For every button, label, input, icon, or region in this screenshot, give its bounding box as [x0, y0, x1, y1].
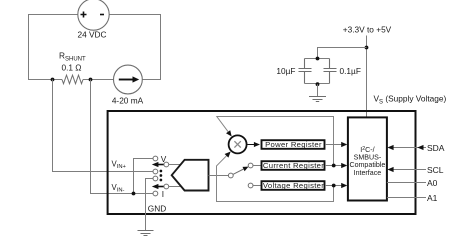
switch terminal V	[153, 156, 158, 161]
wire cap top rail	[305, 58, 330, 60]
node cap bottom	[316, 82, 320, 86]
wire supply vertical	[366, 36, 368, 118]
current register box	[262, 161, 325, 170]
wire current loop to multiplier	[217, 117, 334, 166]
svg-text:Voltage Register: Voltage Register	[263, 181, 324, 190]
pin A0	[387, 182, 426, 184]
voltage register input circle	[248, 183, 253, 188]
switch terminal 3	[153, 176, 158, 181]
voltage source V1 24 VDC	[78, 0, 109, 30]
wire wiper to adc lower	[169, 186, 182, 188]
wire supply to caps	[318, 48, 367, 59]
pin SDA	[393, 147, 426, 149]
capacitor C1 10uF	[299, 59, 312, 84]
svg-text:I: I	[162, 189, 164, 199]
svg-text:Interface: Interface	[354, 169, 382, 177]
pin SCL	[393, 169, 426, 171]
svg-text:Current Register: Current Register	[263, 161, 324, 170]
wire wiper to adc upper	[169, 164, 181, 166]
wire shunt leads	[53, 79, 114, 81]
svg-text:+3.3V to +5V: +3.3V to +5V	[343, 25, 392, 35]
capacitor C2 0.1uF	[324, 59, 337, 84]
current register input circle	[248, 163, 253, 168]
ellipsis dots	[160, 170, 163, 173]
svg-text:SCL: SCL	[427, 165, 444, 175]
wire current register to interface	[325, 165, 342, 167]
voltage register box	[262, 181, 325, 190]
svg-text:4-20 mA: 4-20 mA	[112, 96, 144, 106]
svg-text:0.1 Ω: 0.1 Ω	[61, 63, 81, 73]
node cap top	[316, 57, 320, 61]
node dot left shunt	[51, 78, 55, 82]
switch pole adc out	[228, 173, 233, 178]
pin A1	[387, 197, 426, 199]
svg-text:SMBUS-: SMBUS-	[354, 153, 382, 161]
ground symbol IC	[138, 231, 154, 236]
svg-text:A0: A0	[427, 178, 438, 188]
switch wiper upper	[158, 164, 164, 166]
switch throw diagonal to current	[233, 169, 244, 174]
wire cap bottom rail	[305, 83, 330, 85]
wire adc output	[209, 175, 229, 177]
switch wiper lower	[158, 186, 164, 188]
svg-text:0.1µF: 0.1µF	[340, 66, 361, 76]
node VIN- junction	[132, 192, 136, 196]
power register box	[262, 140, 325, 149]
wire top-left loop	[29, 15, 78, 80]
wire voltage loop to multiplier	[217, 156, 334, 202]
IC box U1	[108, 111, 416, 214]
wire GND from switch	[146, 179, 153, 231]
current source I1 4-20 mA	[114, 65, 143, 94]
interface box I2C/SMBUS	[348, 117, 387, 200]
svg-text:Power Register: Power Register	[265, 140, 322, 149]
wire VIN- drop	[91, 80, 153, 194]
svg-text:24 VDC: 24 VDC	[77, 30, 106, 40]
wire power register to interface	[325, 144, 342, 146]
svg-text:10µF: 10µF	[276, 66, 295, 76]
svg-text:GND: GND	[148, 204, 166, 214]
node dot right shunt	[89, 78, 93, 82]
switch terminal I	[153, 191, 158, 196]
svg-text:SDA: SDA	[427, 143, 445, 153]
ADC pentagon	[172, 160, 209, 191]
wire to ground	[317, 84, 319, 96]
node supply junction	[365, 46, 369, 50]
wire V terminal link	[134, 159, 153, 194]
arrow multiplier to power register	[247, 144, 254, 146]
multiplier X	[229, 135, 247, 153]
wire top-right loop	[109, 15, 160, 80]
wire VIN+ drop	[53, 80, 153, 172]
resistor RSHUNT 0.1 ohm	[62, 75, 83, 84]
svg-text:Compatible: Compatible	[349, 161, 385, 169]
switch terminal 2	[153, 169, 158, 174]
wire voltage register to interface	[325, 185, 342, 187]
ground symbol caps	[309, 97, 326, 102]
svg-text:A1: A1	[427, 193, 438, 203]
